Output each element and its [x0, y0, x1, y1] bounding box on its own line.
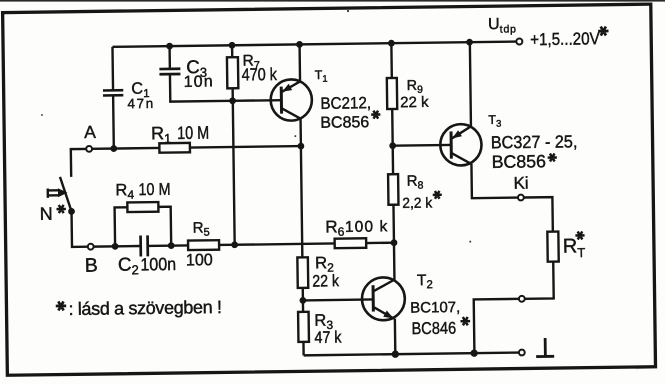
- wire Ki to RT: [524, 197, 553, 232]
- wire C2 right: [148, 244, 188, 247]
- wire T2 base: [303, 298, 373, 301]
- resistor R9: [387, 78, 397, 109]
- svg-text:R4: R4: [115, 181, 134, 202]
- svg-text:10 M: 10 M: [177, 123, 209, 143]
- capacitor C1: [103, 90, 123, 95]
- resistor R1: [159, 143, 190, 153]
- svg-text:: lásd a szövegben !: : lásd a szövegben !: [68, 297, 221, 319]
- wire R7 top: [231, 45, 234, 57]
- wire R4 branch left: [115, 207, 128, 246]
- switch blade: [60, 177, 72, 212]
- svg-text:22 k: 22 k: [312, 272, 339, 291]
- wire R5 to R6: [219, 243, 335, 245]
- star N: [56, 205, 66, 213]
- wire A row left: [71, 149, 87, 177]
- wire T3 emitter: [470, 42, 471, 126]
- star T1: [371, 111, 380, 119]
- svg-text:R1: R1: [151, 123, 172, 146]
- resistor R3: [298, 312, 309, 342]
- svg-text:Ki: Ki: [513, 174, 528, 193]
- wire A row right: [92, 147, 159, 150]
- svg-text:R5: R5: [193, 219, 210, 238]
- wire top rail: [112, 42, 516, 47]
- switch actuator: [48, 188, 59, 198]
- terminal Utdp: [516, 38, 522, 44]
- svg-text:A: A: [84, 122, 96, 142]
- wire R9 bottom: [391, 109, 394, 146]
- resistor R7: [227, 57, 238, 88]
- svg-text:BC856: BC856: [491, 151, 546, 172]
- wire C3 bottom: [170, 73, 233, 102]
- wire T1 collector to R2: [301, 146, 302, 257]
- scan edge top: [0, 0, 665, 2]
- star T3: [548, 153, 557, 161]
- wire R1 to T1: [190, 146, 301, 147]
- svg-text:47 k: 47 k: [314, 329, 342, 348]
- ground: [536, 338, 554, 357]
- svg-text:47n: 47n: [127, 96, 155, 111]
- terminal RT low: [519, 296, 525, 302]
- star RT: [575, 231, 584, 239]
- wire switch to B: [72, 211, 88, 247]
- terminal B: [88, 244, 94, 250]
- speck: [41, 114, 43, 116]
- svg-text:BC107,: BC107,: [410, 299, 460, 317]
- svg-text:C2: C2: [118, 254, 139, 278]
- svg-text:100: 100: [186, 251, 213, 270]
- wire T1 emitter: [298, 44, 301, 81]
- speck: [469, 241, 471, 243]
- wire C1 top: [111, 47, 114, 90]
- wire T1 collector: [299, 119, 302, 146]
- star supply: [598, 26, 609, 35]
- wire R8 top: [391, 146, 394, 174]
- svg-text:T3: T3: [488, 113, 501, 130]
- resistor R2: [297, 257, 308, 288]
- wire R3 bottom: [302, 342, 305, 355]
- capacitor C2: [141, 235, 148, 256]
- resistor RT: [547, 232, 558, 262]
- wire T2 emitter: [394, 319, 397, 355]
- svg-text:T1: T1: [315, 68, 328, 85]
- star note: [56, 301, 67, 310]
- wire T2 collector: [393, 243, 396, 280]
- svg-text:22 k: 22 k: [400, 94, 429, 111]
- wire C1 bottom: [112, 95, 115, 148]
- svg-text:B: B: [85, 255, 98, 277]
- wire RT low to bottom: [474, 299, 520, 353]
- svg-text:BC856: BC856: [320, 114, 369, 132]
- wire R4 branch right: [158, 207, 171, 246]
- wire R2 bottom: [302, 288, 305, 312]
- wire R9 top: [390, 43, 393, 78]
- svg-text:BC212,: BC212,: [320, 95, 371, 113]
- svg-text:10 M: 10 M: [138, 181, 170, 200]
- svg-text:2,2 k: 2,2 k: [402, 194, 433, 211]
- speck: [347, 10, 349, 12]
- wire bottom rail: [304, 353, 519, 356]
- transistor T2: [362, 277, 405, 320]
- svg-text:BC846: BC846: [411, 320, 456, 339]
- wire R7 junction to B row: [233, 101, 235, 245]
- star R8: [433, 191, 442, 199]
- resistor R6: [335, 238, 367, 248]
- svg-text:N: N: [40, 204, 53, 224]
- star T2: [460, 317, 470, 326]
- svg-text:10n: 10n: [184, 73, 215, 90]
- wire R6 right: [366, 241, 394, 244]
- wire B row: [94, 245, 141, 248]
- wire RT bottom: [524, 262, 553, 299]
- capacitor C3: [159, 69, 180, 74]
- terminal Ki: [518, 195, 524, 201]
- svg-text:R6: R6: [325, 217, 345, 239]
- wire R8 bottom: [392, 205, 395, 243]
- terminal A: [86, 146, 92, 152]
- svg-text:R8: R8: [407, 173, 424, 192]
- transistor T3: [440, 124, 482, 166]
- wire T3 base: [393, 144, 451, 147]
- resistor R5: [188, 240, 219, 250]
- terminal ground: [519, 350, 525, 356]
- wire R7 bottom: [231, 88, 234, 100]
- svg-text:T2: T2: [417, 272, 433, 291]
- transistor T1: [270, 79, 312, 121]
- wire T3 collector: [471, 163, 518, 198]
- svg-text:Utdp: Utdp: [488, 16, 517, 36]
- svg-text:BC327 - 25,: BC327 - 25,: [491, 132, 578, 153]
- svg-text:100 k: 100 k: [345, 218, 389, 236]
- wire T1 base: [233, 99, 282, 102]
- speck: [294, 135, 296, 137]
- svg-text:470 k: 470 k: [242, 66, 278, 85]
- wire C3 top: [168, 46, 171, 68]
- resistor R8: [388, 174, 398, 205]
- svg-text:+1,5...20V: +1,5...20V: [530, 29, 600, 49]
- svg-text:100n: 100n: [140, 254, 176, 274]
- resistor R4: [127, 202, 158, 212]
